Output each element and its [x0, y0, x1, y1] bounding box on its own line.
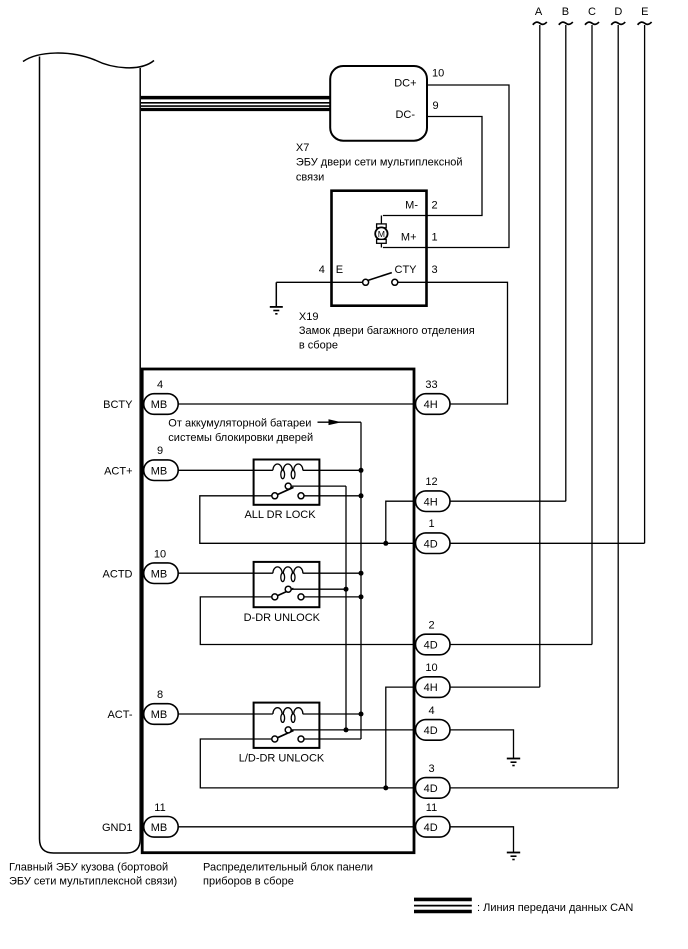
svg-text:M-: M-: [405, 199, 418, 211]
junction dot: D-DR unlock contact to V1: [344, 587, 349, 592]
wire 4D(11) to ground: [450, 827, 514, 853]
svg-text:Распределительный блок панели: Распределительный блок панели: [203, 862, 373, 874]
svg-text:ЭБУ двери сети мультиплексной: ЭБУ двери сети мультиплексной: [296, 157, 463, 169]
relay D-DR UNLOCK: [178, 562, 361, 624]
junction dot: ALL coil to feed wire: [359, 468, 364, 473]
ground (4D pin 4): [507, 759, 520, 766]
svg-text:8: 8: [157, 689, 163, 701]
svg-text:11: 11: [426, 802, 437, 814]
svg-text:MB: MB: [151, 709, 168, 721]
svg-text:1: 1: [428, 518, 434, 530]
svg-text:33: 33: [425, 379, 437, 391]
junction dot: V1 to L/D-DR unlock wire: [344, 727, 349, 732]
wire DC- to M-: [383, 117, 482, 216]
svg-text:MB: MB: [151, 465, 168, 477]
svg-text:X7: X7: [296, 142, 309, 154]
junction dot: 4H(10) branch to 4D(3) wire: [383, 785, 388, 790]
svg-text:A: A: [535, 6, 543, 18]
wire DC+ to M+: [383, 85, 509, 248]
relay ALL DR LOCK: [178, 460, 361, 522]
legend CAN symbol: [414, 899, 472, 911]
branch to 4H(12): [386, 501, 416, 543]
wire 4H(10) left branch down: [386, 687, 416, 788]
X19 luggage door lock box: [332, 191, 427, 306]
junction dot: D-DR switch contact to feed wire: [359, 594, 364, 599]
svg-text:приборов в сборе: приборов в сборе: [203, 876, 294, 888]
ground (X19 E): [270, 282, 283, 314]
svg-text:связи: связи: [296, 171, 324, 183]
wire 4D(2) to line C: [450, 644, 592, 646]
svg-text:4D: 4D: [424, 822, 438, 834]
svg-text:MB: MB: [151, 568, 168, 580]
ground (4D pin 11): [507, 853, 520, 860]
svg-text:в сборе: в сборе: [299, 340, 338, 352]
svg-text:MB: MB: [151, 822, 168, 834]
op ECU X7 box: [330, 66, 427, 141]
node B line: [559, 6, 573, 501]
svg-text:От аккумуляторной батареи: От аккумуляторной батареи: [168, 418, 311, 430]
svg-text:C: C: [588, 6, 596, 18]
node D line: [611, 6, 625, 788]
svg-text:3: 3: [428, 763, 434, 775]
svg-text:1: 1: [432, 231, 438, 243]
svg-text:ALL DR LOCK: ALL DR LOCK: [244, 509, 316, 521]
junction dot: L/D-DR coil to feed wire: [359, 712, 364, 717]
svg-text:11: 11: [154, 802, 165, 814]
svg-text:4: 4: [157, 379, 163, 391]
svg-text:4D: 4D: [424, 640, 438, 652]
svg-text:MB: MB: [151, 399, 168, 411]
svg-text:3: 3: [432, 264, 438, 276]
svg-text:GND1: GND1: [102, 822, 133, 834]
wire CTY to 4H(33): [398, 282, 508, 404]
svg-text:E: E: [336, 264, 343, 276]
svg-text:D: D: [614, 6, 622, 18]
wire BCTY: [178, 403, 415, 405]
svg-text:4D: 4D: [424, 783, 438, 795]
svg-text:4D: 4D: [424, 725, 438, 737]
svg-text:ACT-: ACT-: [107, 709, 132, 721]
svg-text:D-DR UNLOCK: D-DR UNLOCK: [244, 612, 321, 624]
svg-text:12: 12: [425, 476, 437, 488]
courtesy switch (X19): [276, 273, 398, 286]
svg-text:9: 9: [433, 100, 439, 112]
wire 4H(12) to line B: [450, 500, 566, 502]
svg-text:L/D-DR UNLOCK: L/D-DR UNLOCK: [239, 753, 325, 765]
svg-text:ЭБУ сети мультиплексной связи): ЭБУ сети мультиплексной связи): [9, 876, 177, 888]
wire GND1: [178, 826, 415, 828]
wire 4D(1) to line E: [450, 542, 645, 544]
junction dot: ALL switch contact to feed wire: [359, 493, 364, 498]
svg-text:ACT+: ACT+: [104, 465, 132, 477]
junction dot: branch to 4H(12): [383, 541, 388, 546]
relay L/D-DR UNLOCK: [178, 703, 415, 765]
svg-text:4D: 4D: [424, 538, 438, 550]
svg-text:M+: M+: [401, 231, 417, 243]
wire L/D-DR left contact to 4D(3): [200, 739, 415, 788]
node E line: [638, 6, 652, 543]
svg-text:BCTY: BCTY: [103, 399, 133, 411]
vertical feed wire V2: [360, 422, 362, 739]
svg-text:2: 2: [432, 199, 438, 211]
svg-text:DC+: DC+: [394, 77, 416, 89]
svg-text:M: M: [378, 229, 385, 239]
svg-text:E: E: [641, 6, 648, 18]
svg-text:4H: 4H: [424, 682, 438, 694]
battery feed arrow wire: [318, 421, 362, 423]
svg-text:4: 4: [428, 705, 434, 717]
svg-text:4: 4: [319, 264, 325, 276]
motor M (X19): [375, 216, 387, 248]
svg-text:2: 2: [428, 620, 434, 632]
wire 4D(4) to ground: [450, 730, 514, 759]
node C line: [585, 6, 599, 645]
wire 4H(10) to line A: [450, 686, 540, 688]
svg-text:4H: 4H: [424, 496, 438, 508]
svg-text:4H: 4H: [424, 399, 438, 411]
svg-text:10: 10: [154, 548, 166, 560]
junction dot: D-DR coil to feed wire: [359, 571, 364, 576]
svg-text:X19: X19: [299, 311, 319, 323]
wire D-DR left contact to 4D(2): [200, 597, 415, 645]
vertical wire V1 (unlock contacts): [345, 486, 347, 730]
wire 4D(3) to line D: [450, 787, 618, 789]
svg-text:CTY: CTY: [395, 264, 418, 276]
svg-text:: Линия передачи данных CAN: : Линия передачи данных CAN: [477, 902, 633, 914]
main body ECU box (left, torn top): [23, 53, 154, 853]
svg-text:DC-: DC-: [395, 109, 415, 121]
CAN bus wire (body ECU to X7): [141, 98, 330, 110]
distribution block box: [142, 369, 414, 853]
svg-text:ACTD: ACTD: [103, 568, 133, 580]
svg-text:системы блокировки дверей: системы блокировки дверей: [168, 432, 313, 444]
svg-text:Замок двери багажного отделени: Замок двери багажного отделения: [299, 325, 475, 337]
svg-text:9: 9: [157, 445, 163, 457]
svg-text:B: B: [562, 6, 569, 18]
wire ALL left contact to 4D(1)/4H(12): [200, 496, 416, 544]
node A line: [533, 6, 547, 687]
svg-text:10: 10: [425, 662, 437, 674]
svg-text:10: 10: [432, 68, 444, 80]
svg-text:Главный ЭБУ кузова (бортовой: Главный ЭБУ кузова (бортовой: [9, 862, 168, 874]
